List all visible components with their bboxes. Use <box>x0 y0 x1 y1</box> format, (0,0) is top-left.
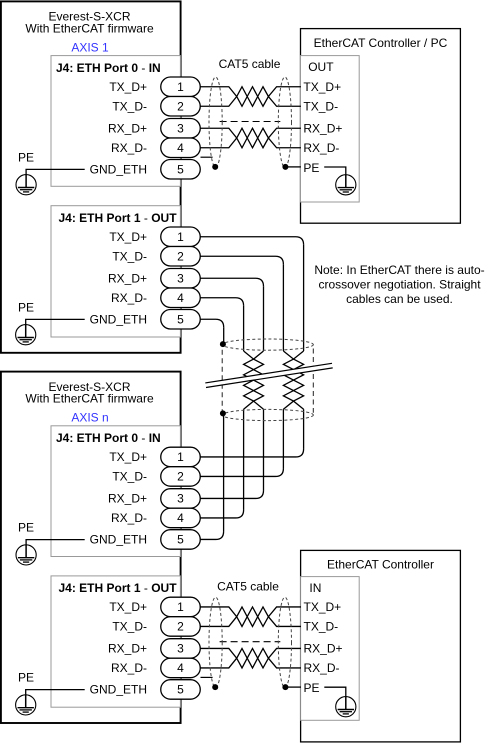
svg-text:AXIS n: AXIS n <box>71 411 108 425</box>
svg-text:PE: PE <box>304 681 320 695</box>
svg-text:5: 5 <box>177 533 184 547</box>
svg-text:5: 5 <box>177 312 184 326</box>
svg-text:PE: PE <box>18 300 34 314</box>
svg-text:PE: PE <box>18 521 34 535</box>
svg-text:IN: IN <box>309 581 321 595</box>
svg-text:TX_D+: TX_D+ <box>109 600 147 614</box>
svg-text:J4: ETH Port 1 - OUT: J4: ETH Port 1 - OUT <box>59 581 178 595</box>
svg-text:RX_D-: RX_D- <box>111 661 147 675</box>
svg-text:1: 1 <box>177 450 184 464</box>
svg-text:1: 1 <box>177 80 184 94</box>
svg-text:2: 2 <box>177 620 184 634</box>
svg-text:GND_ETH: GND_ETH <box>90 533 147 547</box>
svg-text:4: 4 <box>177 291 184 305</box>
svg-text:RX_D+: RX_D+ <box>303 121 342 135</box>
svg-text:4: 4 <box>177 141 184 155</box>
svg-text:RX_D+: RX_D+ <box>108 642 147 656</box>
svg-text:RX_D-: RX_D- <box>111 291 147 305</box>
svg-text:AXIS 1: AXIS 1 <box>71 41 109 55</box>
svg-text:With EtherCAT firmware: With EtherCAT firmware <box>25 21 154 35</box>
svg-text:PE: PE <box>18 150 34 164</box>
svg-text:TX_D+: TX_D+ <box>304 600 342 614</box>
svg-text:TX_D-: TX_D- <box>112 620 147 634</box>
svg-text:TX_D-: TX_D- <box>303 100 338 114</box>
svg-text:2: 2 <box>177 470 184 484</box>
svg-text:RX_D-: RX_D- <box>111 511 147 525</box>
svg-text:RX_D-: RX_D- <box>304 661 340 675</box>
svg-text:TX_D+: TX_D+ <box>109 80 147 94</box>
svg-text:TX_D+: TX_D+ <box>109 230 147 244</box>
svg-text:4: 4 <box>177 511 184 525</box>
svg-text:3: 3 <box>177 492 184 506</box>
svg-text:2: 2 <box>177 249 184 263</box>
svg-text:J4: ETH Port 0 - IN: J4: ETH Port 0 - IN <box>56 431 161 445</box>
svg-text:RX_D+: RX_D+ <box>108 271 147 285</box>
svg-text:PE: PE <box>303 161 319 175</box>
svg-text:GND_ETH: GND_ETH <box>90 162 147 176</box>
svg-text:J4: ETH Port 0 - IN: J4: ETH Port 0 - IN <box>56 61 161 75</box>
svg-text:TX_D-: TX_D- <box>112 249 147 263</box>
svg-text:TX_D+: TX_D+ <box>303 80 341 94</box>
svg-text:GND_ETH: GND_ETH <box>90 683 147 697</box>
svg-text:TX_D+: TX_D+ <box>109 450 147 464</box>
svg-text:1: 1 <box>177 230 184 244</box>
svg-text:EtherCAT Controller: EtherCAT Controller <box>327 558 434 572</box>
svg-text:RX_D+: RX_D+ <box>304 642 343 656</box>
svg-text:TX_D-: TX_D- <box>304 620 339 634</box>
svg-text:RX_D+: RX_D+ <box>108 492 147 506</box>
svg-text:5: 5 <box>177 683 184 697</box>
svg-text:TX_D-: TX_D- <box>112 100 147 114</box>
svg-text:3: 3 <box>177 271 184 285</box>
svg-text:Note: In EtherCAT there is aut: Note: In EtherCAT there is auto- <box>314 263 484 277</box>
svg-text:GND_ETH: GND_ETH <box>90 312 147 326</box>
svg-text:5: 5 <box>177 162 184 176</box>
svg-text:crossover negotiation. Straigh: crossover negotiation. Straight <box>318 278 481 292</box>
svg-text:CAT5 cable: CAT5 cable <box>219 57 281 71</box>
svg-text:PE: PE <box>18 671 34 685</box>
svg-text:3: 3 <box>177 121 184 135</box>
svg-text:With EtherCAT firmware: With EtherCAT firmware <box>25 392 154 406</box>
svg-text:EtherCAT Controller / PC: EtherCAT Controller / PC <box>314 36 448 50</box>
svg-text:RX_D+: RX_D+ <box>108 121 147 135</box>
svg-text:OUT: OUT <box>308 60 334 74</box>
svg-text:RX_D-: RX_D- <box>111 141 147 155</box>
svg-text:2: 2 <box>177 100 184 114</box>
svg-text:cables can be used.: cables can be used. <box>346 292 453 306</box>
svg-text:1: 1 <box>177 600 184 614</box>
svg-text:RX_D-: RX_D- <box>303 141 339 155</box>
svg-text:3: 3 <box>177 642 184 656</box>
svg-text:CAT5 cable: CAT5 cable <box>217 580 279 594</box>
svg-text:TX_D-: TX_D- <box>112 470 147 484</box>
svg-text:4: 4 <box>177 661 184 675</box>
svg-text:J4: ETH Port 1 - OUT: J4: ETH Port 1 - OUT <box>59 211 178 225</box>
